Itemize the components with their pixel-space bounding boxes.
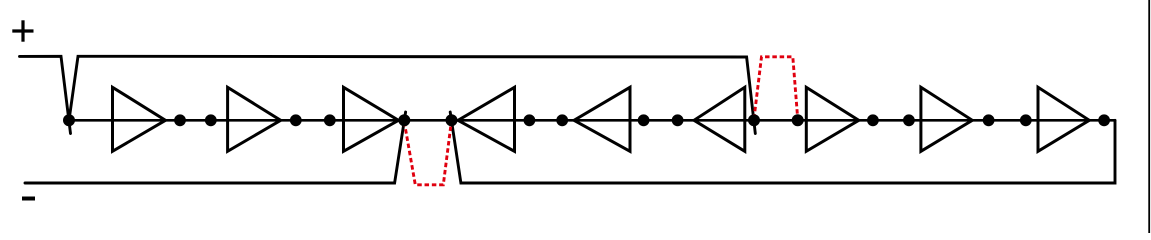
junction dot 2 (205, 114, 217, 126)
amplifier A5 (left-facing) (574, 87, 630, 151)
figure border (right edge) (1148, 0, 1150, 233)
junction dot 7 (524, 114, 536, 126)
wire: top rail from node A to descender (69, 56, 755, 133)
junction dot 16 (1020, 114, 1032, 126)
wire: bottom rail right segment with riser from node C (450, 112, 1115, 183)
bypass path (red dashed) lower (404, 122, 451, 185)
node D (748, 114, 760, 126)
bypass path (red dashed) upper (754, 57, 798, 119)
junction dot 13 (867, 114, 879, 126)
junction dot 8 (556, 114, 568, 126)
junction dot 10 (672, 114, 684, 126)
junction dot 17 (1098, 114, 1110, 126)
- terminal symbol (22, 197, 35, 201)
junction dot 3 (290, 114, 302, 126)
node A (63, 114, 75, 126)
amplifier A8 (921, 87, 972, 151)
wire: main horizontal bus (69, 119, 1115, 122)
amplifier A6 (left-facing) (694, 87, 745, 151)
node B (398, 114, 410, 126)
amplifier A4 (left-facing) (458, 87, 515, 151)
amplifier A3 (344, 87, 399, 151)
wire: bottom rail left segment with riser to node B (25, 112, 406, 183)
junction dot 9 (638, 114, 650, 126)
junction dot 4 (324, 114, 336, 126)
amplifier A9 (1038, 87, 1089, 151)
amplifier A1 (113, 87, 166, 151)
node C (446, 114, 458, 126)
junction dot 14 (903, 114, 915, 126)
wire: + lead into top rail (20, 56, 71, 133)
amplifier A7 (806, 87, 859, 151)
node E (792, 114, 804, 126)
junction dot 1 (174, 114, 186, 126)
junction dot 15 (983, 114, 995, 126)
amplifier A2 (228, 87, 281, 151)
+ terminal symbol (12, 20, 33, 41)
